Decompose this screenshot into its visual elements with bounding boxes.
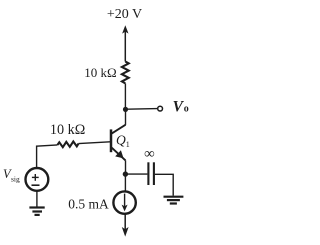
resistor RB 10 kOhm (base) [58,142,79,148]
base wire from resistor to Q1 [79,142,111,144]
wire emitter node to capacitor [125,173,147,175]
wire collector vertical [125,109,127,125]
resistor RC 10 kOhm (collector) [122,62,129,84]
wire output tap [126,108,158,111]
svg-text:∞: ∞ [144,146,154,162]
wire emitter vertical [125,160,127,174]
svg-text:+20 V: +20 V [107,7,142,22]
voltage source Vsig circle [26,168,49,191]
transistor Q1 emitter diagonal with arrow [112,148,126,161]
minus sign inside Vsig [32,184,40,186]
wire source to resistor [37,145,58,168]
plus sign inside Vsig [32,174,39,181]
wire Vsig to ground [36,191,38,207]
svg-text:o: o [184,103,189,114]
output terminal open circle [158,106,163,111]
ground (below Vsig) [29,208,44,215]
svg-text:0.5 mA: 0.5 mA [68,197,109,212]
svg-text:sig: sig [11,174,20,183]
svg-text:10 kΩ: 10 kΩ [84,65,116,80]
svg-text:10 kΩ: 10 kΩ [50,122,85,138]
current source internal arrow [122,194,128,212]
svg-text:Q: Q [116,133,126,148]
node emitter junction dot [123,171,128,176]
current source I 0.5 mA circle [113,191,135,213]
transistor Q1 base bar [110,129,113,152]
wire capacitor to right ground [155,174,173,195]
+20V supply arrow [122,25,128,61]
capacitor CE (infinity) plates [148,162,154,185]
wire emitter node to current source [124,174,126,191]
wire resistor bottom to collector node [124,83,126,109]
wire to negative supply [124,214,126,230]
svg-text:1: 1 [126,140,130,149]
ground (right, capacitor) [164,197,184,204]
negative supply arrow (down) [122,227,129,237]
node collector junction dot [123,107,128,112]
transistor Q1 collector diagonal [112,125,126,134]
